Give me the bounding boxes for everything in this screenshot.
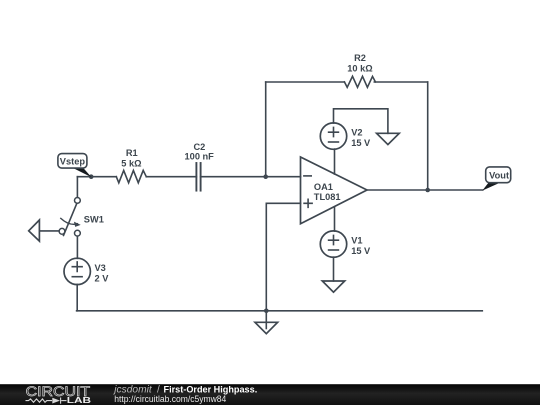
- wire R1 to C2: [146, 176, 196, 178]
- svg-text:Vout: Vout: [489, 170, 509, 180]
- wire feedback drop to output: [427, 82, 429, 190]
- voltage source V1 circle: [320, 231, 346, 257]
- svg-text:V2: V2: [351, 127, 362, 137]
- wire V1 to ground: [333, 257, 335, 281]
- wire feedback tap up: [265, 82, 267, 177]
- wire Vstep drop to switch: [76, 177, 78, 198]
- svg-text:2 V: 2 V: [95, 273, 110, 283]
- V1 minus symbol: [329, 249, 339, 251]
- op-amp OA1 triangle: [301, 157, 368, 224]
- node junction feedback tap: [263, 174, 268, 179]
- V2 plus symbol: [329, 127, 339, 136]
- switch SW1 bottom terminal: [75, 230, 81, 236]
- svg-text:SW1: SW1: [84, 214, 104, 224]
- svg-text:V3: V3: [95, 263, 106, 273]
- switch SW1 toggle arc: [61, 218, 78, 224]
- voltage source V2 circle: [320, 123, 346, 149]
- ground symbol at V1: [322, 281, 344, 292]
- wire C2 to op-amp minus input: [201, 176, 301, 178]
- node junction at Vstep: [89, 174, 94, 179]
- V2 minus symbol: [329, 141, 339, 143]
- wire op-amp plus input to rail: [266, 203, 300, 310]
- wire op-amp output to Vout: [367, 189, 483, 191]
- node junction rail ground: [264, 309, 269, 314]
- svg-text:R2: R2: [354, 53, 366, 63]
- svg-text:15 V: 15 V: [351, 246, 371, 256]
- switch SW1 top terminal: [75, 198, 81, 204]
- switch SW1 arrowhead: [74, 222, 81, 227]
- voltage source V3 circle: [64, 258, 90, 284]
- wire switch to V3: [76, 236, 78, 258]
- svg-text:5 kΩ: 5 kΩ: [121, 158, 142, 168]
- op-amp OA1 non-inverting input marker: [304, 199, 312, 207]
- V3 minus symbol: [72, 276, 82, 278]
- wire V3 to rail: [76, 284, 78, 310]
- wire left ground to switch: [40, 230, 59, 232]
- footer bar: [0, 384, 540, 405]
- logo diode triangle: [52, 398, 60, 404]
- svg-text:http://circuitlab.com/c5ymw84: http://circuitlab.com/c5ymw84: [114, 394, 227, 405]
- ground symbol at rail: [255, 322, 278, 333]
- logo resistor-diode glyph: [26, 398, 67, 404]
- node flag Vout: [482, 167, 510, 191]
- V3 plus symbol: [72, 262, 82, 272]
- wire bottom rail: [77, 310, 483, 312]
- capacitor C2 plates: [195, 163, 197, 191]
- switch SW1 blade: [64, 203, 77, 235]
- svg-text:Vstep: Vstep: [60, 157, 86, 167]
- svg-text:15 V: 15 V: [351, 138, 371, 148]
- ground symbol left of switch: [29, 220, 40, 241]
- wire feedback top right segment: [374, 81, 427, 83]
- resistor R1 zigzag: [116, 170, 146, 182]
- node flag Vstep: [58, 154, 92, 178]
- switch SW1 left terminal: [59, 228, 65, 234]
- node junction output: [425, 188, 430, 193]
- wire feedback top left segment: [266, 81, 345, 83]
- wire op-amp V- pin: [334, 207, 336, 231]
- V1 plus symbol: [329, 235, 339, 244]
- wire main input run (Vstep to R1): [77, 176, 116, 178]
- svg-text:OA1: OA1: [314, 182, 333, 192]
- svg-text:V1: V1: [351, 236, 362, 246]
- op-amp OA1 inverting input marker: [304, 175, 311, 177]
- wire op-amp V+ pin: [334, 149, 336, 174]
- svg-text:10 kΩ: 10 kΩ: [347, 64, 373, 74]
- ground symbol at V2: [377, 133, 400, 144]
- svg-text:100 nF: 100 nF: [185, 152, 215, 162]
- wire rail ground stub: [265, 311, 267, 329]
- resistor R2 zigzag: [344, 76, 375, 87]
- svg-text:R1: R1: [126, 148, 138, 158]
- svg-text:TL081: TL081: [314, 192, 341, 202]
- wire V2 top to ground: [334, 109, 388, 134]
- svg-text:LAB: LAB: [67, 396, 91, 405]
